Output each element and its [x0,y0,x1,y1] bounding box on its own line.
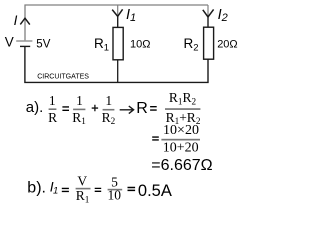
svg-text:10×20: 10×20 [163,123,199,138]
svg-text:10Ω: 10Ω [130,39,150,51]
equals [62,107,69,110]
wire left upper vertical [24,5,26,41]
equals [128,188,136,191]
svg-text:1: 1 [76,93,83,108]
svg-text:0.5A: 0.5A [138,182,172,200]
svg-text:R: R [48,110,57,125]
svg-text:R: R [136,100,148,117]
arrow current I1 (down) [112,9,122,16]
svg-text:10: 10 [108,188,122,203]
svg-text:V: V [77,174,87,189]
svg-text:b).: b). [27,180,46,197]
fraction V/R1 bar [76,188,91,190]
arrow implies [120,106,134,114]
fraction 1/R1 bar [73,109,85,111]
wire top horizontal [25,4,209,6]
arrow current I2 (down) [203,9,214,17]
wire R2 branch upper stub [207,5,209,28]
resistor R2 body [204,27,214,59]
svg-text:1: 1 [49,93,56,108]
arrow current I (up) [20,18,30,24]
equals [150,107,157,110]
svg-text:a).: a). [26,99,44,116]
battery V plate long [16,40,32,42]
resistor R1 body [113,27,123,59]
svg-text:1: 1 [105,93,112,108]
wire left lower + bottom + right lower [25,46,208,82]
fraction 1/R2 bar [103,109,115,111]
equals line2 [152,137,159,140]
svg-text:I: I [14,13,18,28]
svg-text:V: V [5,34,14,49]
svg-text:5V: 5V [36,39,50,51]
battery V plate short [20,45,30,47]
fraction 10x20 bar [161,139,200,141]
wire R1 branch upper stub [117,5,119,28]
svg-text:=6.667Ω: =6.667Ω [151,157,212,174]
svg-text:20Ω: 20Ω [217,39,237,51]
fraction 1/R bar [49,108,57,110]
wire R1 branch lower stub [117,60,119,83]
fraction R1R2 bar [165,108,200,110]
fraction 5/10 bar [108,189,123,191]
equals [62,188,69,191]
svg-text:CIRCUITGATES: CIRCUITGATES [37,72,89,81]
svg-text:10+20: 10+20 [163,141,199,156]
equals [95,188,102,191]
plus [92,105,98,112]
